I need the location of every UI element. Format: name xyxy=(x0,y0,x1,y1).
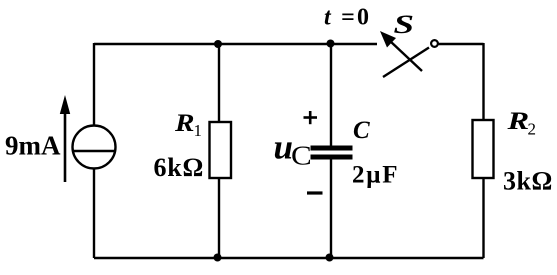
svg-text:t =0: t =0 xyxy=(324,5,371,31)
wire R1 branch upper xyxy=(218,44,220,122)
svg-text:R: R xyxy=(174,109,195,137)
svg-text:6kΩ: 6kΩ xyxy=(154,153,205,182)
wire left vertical lower xyxy=(93,169,95,258)
current source arrow xyxy=(60,95,70,182)
minus sign xyxy=(307,191,323,194)
svg-text:C: C xyxy=(353,117,370,144)
node junction dot bottom of C xyxy=(326,254,334,262)
switch S blade xyxy=(383,48,429,78)
wire R1 branch lower xyxy=(218,178,220,258)
node junction dot top of R1 xyxy=(214,40,222,48)
svg-text:3kΩ: 3kΩ xyxy=(503,167,553,196)
wire capacitor branch lower xyxy=(330,159,332,258)
wire left vertical upper xyxy=(93,43,95,125)
current source IS circle xyxy=(73,126,116,169)
switch contact circle xyxy=(431,40,438,47)
capacitor C plates xyxy=(311,148,353,157)
wire top right from switch contact to corner xyxy=(438,43,484,45)
svg-text:C: C xyxy=(291,141,312,171)
wire right vertical upper (corner to R2) xyxy=(482,43,484,120)
svg-text:1: 1 xyxy=(194,121,203,140)
switch arrow line xyxy=(390,41,422,71)
svg-text:S: S xyxy=(394,10,415,38)
plus sign xyxy=(304,111,318,124)
node junction dot top of C xyxy=(327,40,335,48)
wire bottom horizontal xyxy=(94,257,484,259)
wire right vertical lower (R2 to bottom) xyxy=(482,178,484,258)
wire top horizontal xyxy=(94,43,377,45)
svg-text:9mA: 9mA xyxy=(5,131,61,161)
svg-text:2μF: 2μF xyxy=(352,161,399,188)
node junction dot bottom of R1 xyxy=(214,254,222,262)
wire capacitor branch upper xyxy=(330,44,332,146)
svg-text:2: 2 xyxy=(528,120,537,139)
resistor R2 xyxy=(473,120,494,178)
resistor R1 xyxy=(210,122,232,178)
switch arrowhead xyxy=(380,31,396,48)
svg-text:R: R xyxy=(506,107,529,135)
